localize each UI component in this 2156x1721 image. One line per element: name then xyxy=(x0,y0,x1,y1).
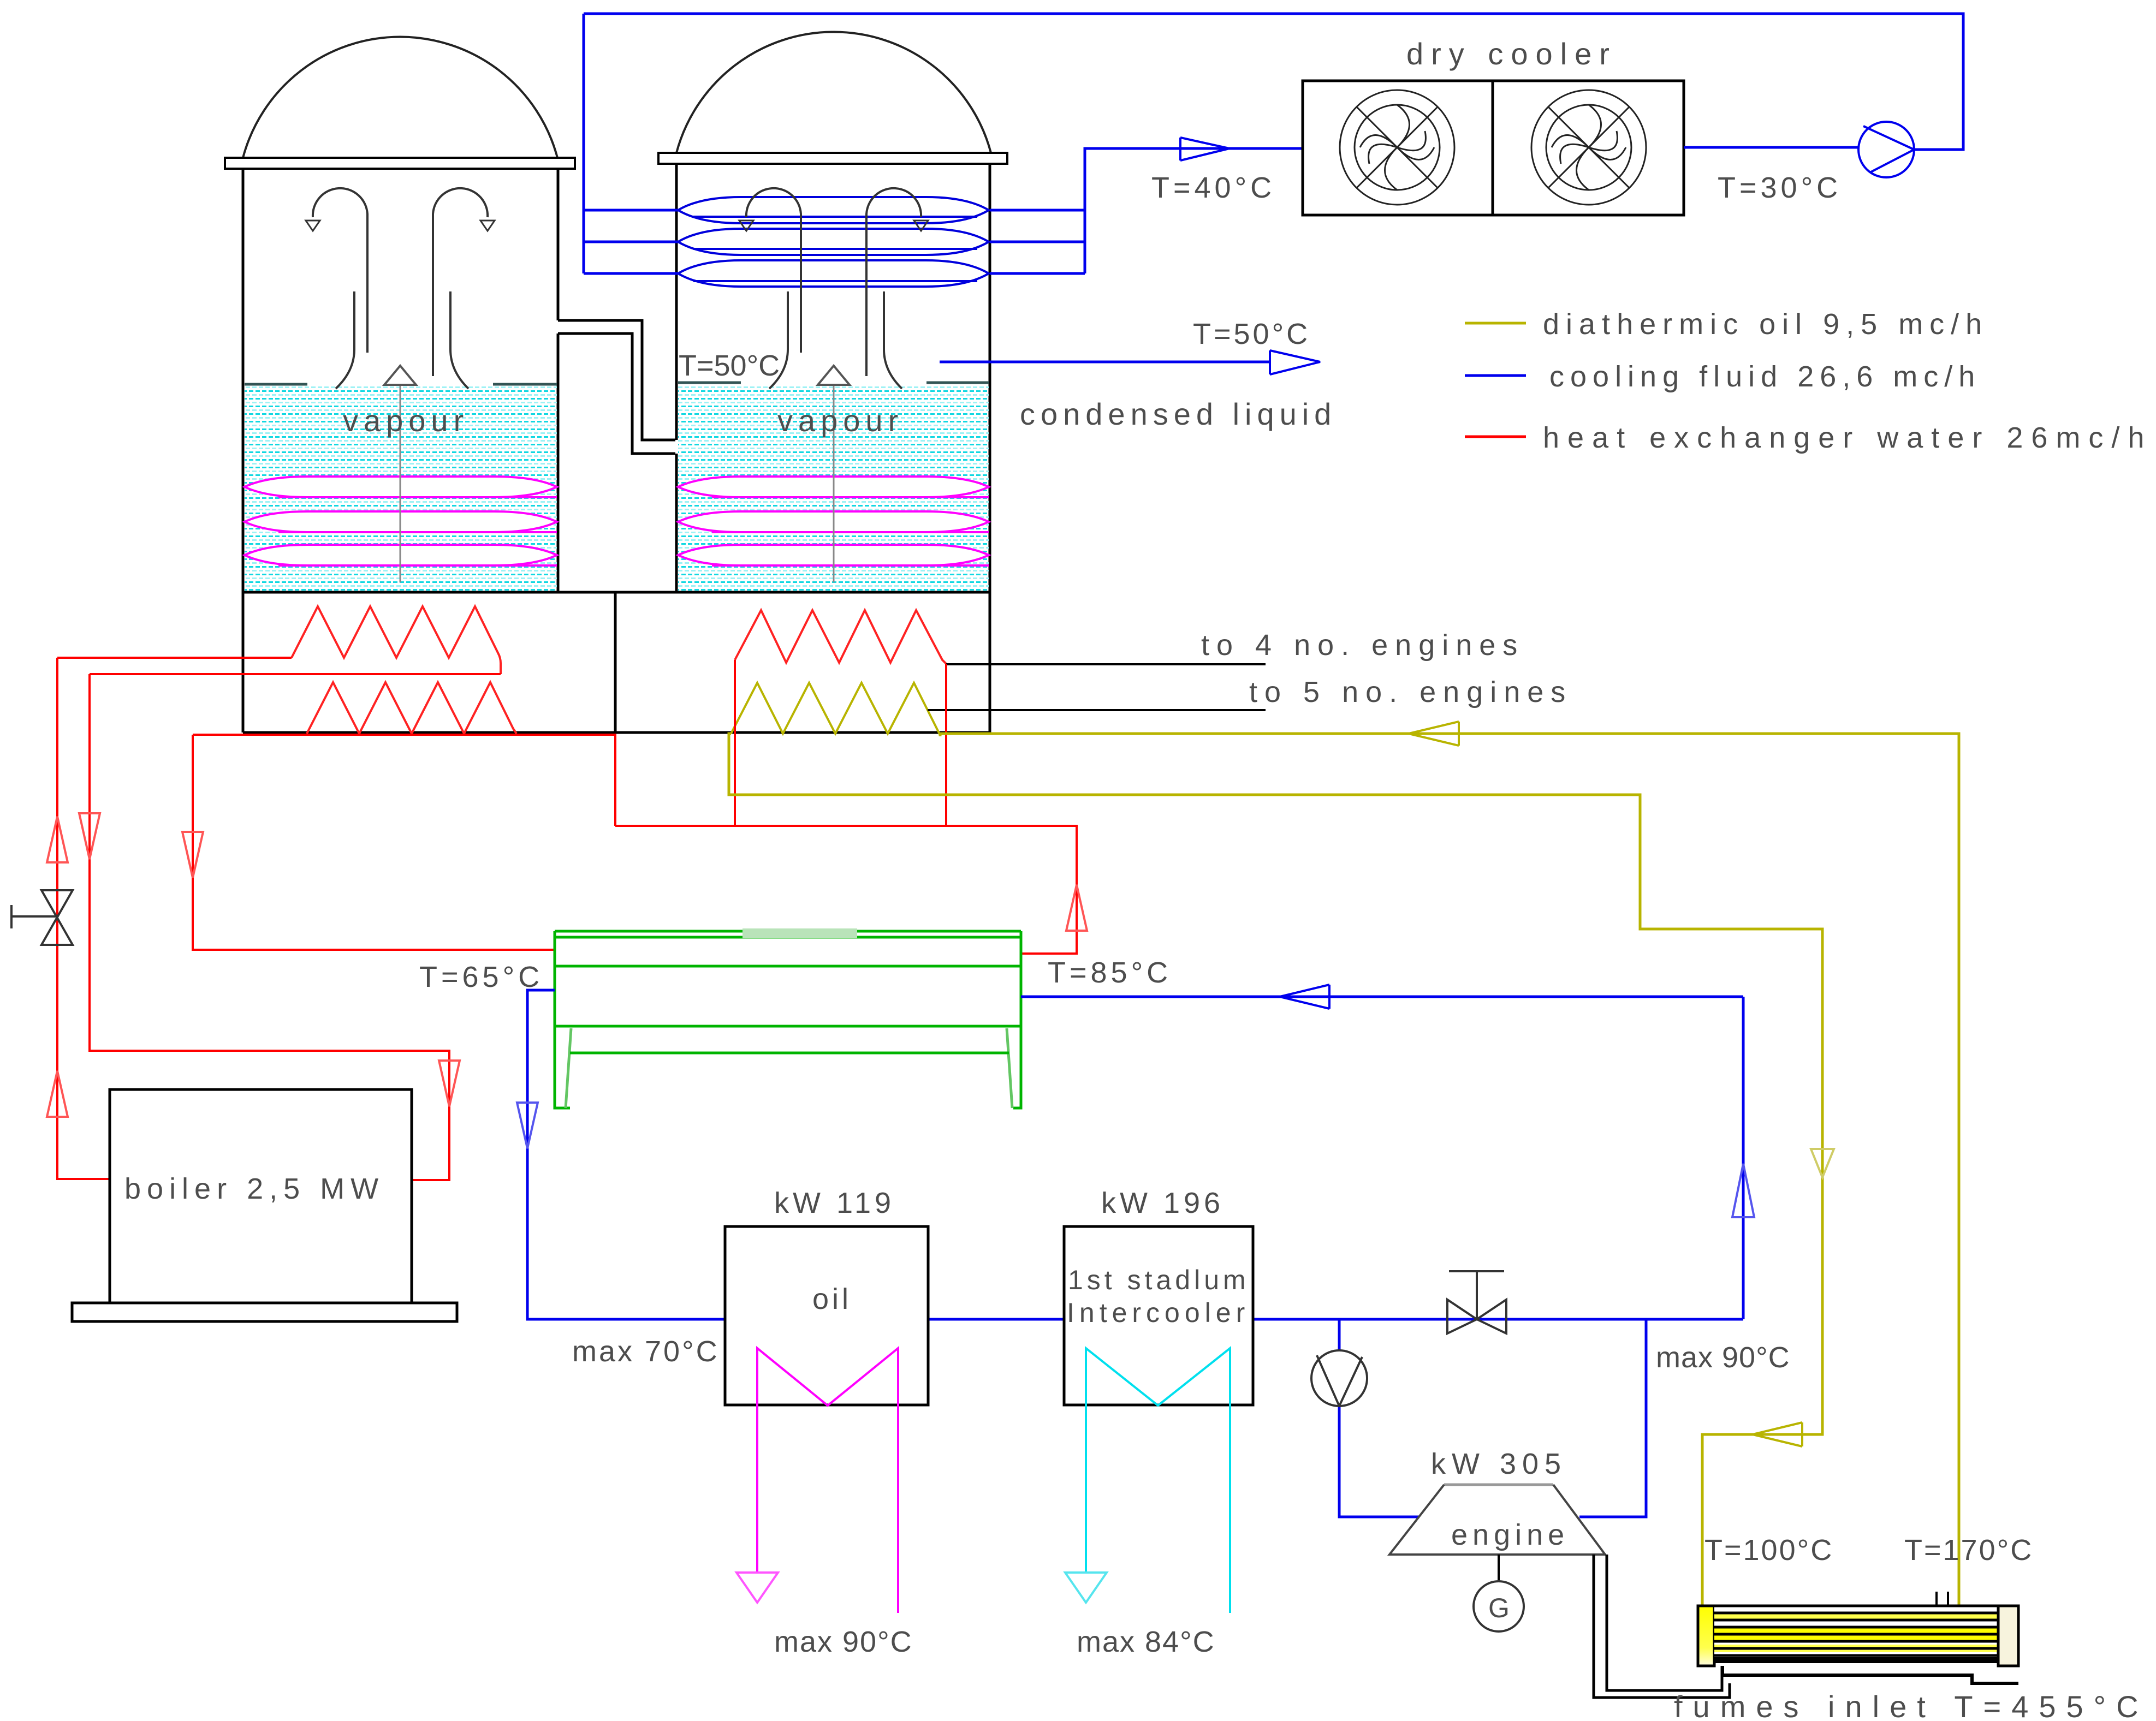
generator G circle xyxy=(1474,1581,1524,1631)
vessel V2 liquid surface line xyxy=(678,382,989,384)
blue pipe dry cooler to pump xyxy=(1684,146,1858,149)
green exchanger body xyxy=(555,931,1021,1026)
vessel V1 right wall (with pipe opening 587-611) xyxy=(557,169,560,592)
green exchanger left edge xyxy=(555,931,570,1108)
svg-text:T=30°C: T=30°C xyxy=(1718,171,1842,204)
wire to 5 no. engines xyxy=(928,709,1266,711)
svg-text:T=40°C: T=40°C xyxy=(1151,171,1275,204)
vessel V2 condenser chord 1 xyxy=(693,216,977,218)
fumes exchanger bottom plate xyxy=(1723,1666,2018,1683)
yellow arrow left on y1344 xyxy=(1409,722,1459,746)
blue arrow up on riser max90 xyxy=(1732,1164,1754,1217)
blue pipe vessel2 coil right manifold xyxy=(990,148,1303,273)
vessel V2 funnel right xyxy=(884,291,902,389)
vessel V1 funnel left xyxy=(336,291,354,389)
cyan circuit V xyxy=(1086,1348,1230,1613)
blue pipe intercooler to engine circuit xyxy=(1253,1318,1743,1321)
svg-text:T=85°C: T=85°C xyxy=(1048,956,1172,989)
svg-text:max 84°C: max 84°C xyxy=(1077,1625,1215,1658)
red arrow down on riser2 drop at boiler xyxy=(439,1061,460,1106)
vessel V2 dome xyxy=(676,32,991,153)
blue arrow condensed liquid xyxy=(1270,350,1320,374)
heater box top line xyxy=(243,591,990,594)
green exchanger left leg xyxy=(566,1028,571,1108)
green exchanger right leg xyxy=(1007,1028,1012,1108)
fumes exchanger tube bundle fill xyxy=(1714,1606,1998,1660)
yellow pipe return from fumes exchanger to vessel2 xyxy=(940,734,1959,1606)
red arrow up T85 xyxy=(1066,885,1087,931)
green exchanger right edge xyxy=(1013,931,1021,1108)
vessel V1 funnel right xyxy=(450,291,468,389)
svg-text:dry cooler: dry cooler xyxy=(1406,37,1617,71)
vessel V2 vapour hook arrow right xyxy=(866,188,921,376)
blue pipe exchanger left port down xyxy=(527,990,725,1319)
vessel V2 condenser coil lens 3 (blue) xyxy=(678,260,989,287)
vessel V1 heating coil lens 2 xyxy=(245,511,557,532)
vessel V2 condenser chord 3 xyxy=(693,280,977,282)
magenta oil circuit V xyxy=(757,1348,898,1613)
green exchanger top highlight xyxy=(743,928,857,938)
legend sample diathermic oil xyxy=(1465,322,1526,325)
vessel V1 dome xyxy=(243,37,557,158)
green exchanger leg crossbar xyxy=(570,1052,1009,1055)
vessel V1 coil chord line 2 xyxy=(278,531,557,533)
vessel V1 flange xyxy=(225,158,575,169)
valve hand valve on riser1 xyxy=(41,890,73,945)
wire vapour crossover outer xyxy=(558,320,675,440)
exhaust duct xyxy=(1594,1555,1730,1698)
vessel V1 heating coil lens 1 xyxy=(245,477,557,497)
svg-text:Intercooler: Intercooler xyxy=(1067,1297,1250,1328)
vessel V1 vapour hook arrow right xyxy=(433,188,488,376)
blue pipe oil box to intercooler xyxy=(928,1318,1064,1321)
red riser 1 (boiler supply up) xyxy=(57,658,110,1179)
fumes exchanger tubes xyxy=(1714,1606,1998,1656)
svg-text:to 4 no. engines: to 4 no. engines xyxy=(1201,629,1524,662)
vessel V1 coil chord line 3 xyxy=(278,564,557,567)
pump P2 xyxy=(1311,1350,1367,1406)
oil box xyxy=(725,1226,928,1405)
vessel V2 coil chord line 2 xyxy=(712,531,989,533)
svg-text:G: G xyxy=(1488,1593,1510,1623)
svg-text:kW 305: kW 305 xyxy=(1431,1448,1567,1480)
blue arrow left on return xyxy=(1280,985,1329,1009)
red arrow up on riser1 upper xyxy=(47,817,68,862)
blue condensed liquid pipe xyxy=(940,361,1270,364)
svg-text:condensed liquid: condensed liquid xyxy=(1020,397,1337,431)
red riser V2-left (from zigzag to T85 junction) xyxy=(734,660,736,826)
red riser 2 (return down to boiler) xyxy=(90,674,449,1180)
svg-text:max 70°C: max 70°C xyxy=(572,1335,720,1368)
svg-text:fumes inlet T=455°C: fumes inlet T=455°C xyxy=(1674,1689,2149,1721)
vessel V2 funnel left xyxy=(769,291,788,389)
svg-text:1st stadlum: 1st stadlum xyxy=(1068,1265,1250,1295)
blue top long pipe xyxy=(584,14,1963,150)
red pipe bottom collector down-left xyxy=(193,735,555,950)
svg-text:max 90°C: max 90°C xyxy=(1656,1341,1790,1374)
yellow arrow left on y2628 xyxy=(1753,1422,1802,1446)
boiler base xyxy=(72,1303,457,1321)
svg-text:boiler 2,5 MW: boiler 2,5 MW xyxy=(124,1172,384,1205)
svg-text:engine: engine xyxy=(1451,1518,1569,1551)
svg-text:heat exchanger water 26mc/h: heat exchanger water 26mc/h xyxy=(1543,421,2152,454)
intercooler box xyxy=(1064,1226,1253,1405)
fumes exchanger bottom tube bar xyxy=(1714,1657,1998,1663)
cyan arrow down xyxy=(1065,1573,1107,1603)
svg-text:vapour: vapour xyxy=(343,403,469,438)
blue return pipe to green exchanger xyxy=(1021,996,1743,998)
blue riser max90 up xyxy=(1742,997,1745,1319)
svg-text:vapour: vapour xyxy=(777,403,904,438)
red bottom collector line V1 xyxy=(193,735,615,826)
svg-text:T=50°C: T=50°C xyxy=(1193,318,1310,350)
dry cooler fan 1 xyxy=(1340,90,1454,205)
vessel V2 centre vapour arrow xyxy=(833,385,835,582)
fumes exchanger top notches xyxy=(1937,1592,1948,1606)
vessel V1 vapour hook arrow left xyxy=(313,188,367,353)
dry cooler fan 2 xyxy=(1531,90,1646,205)
legend sample cooling fluid xyxy=(1465,374,1526,377)
svg-text:oil: oil xyxy=(812,1283,852,1315)
red pipe exchanger left port xyxy=(554,949,556,951)
wire vapour crossover inner xyxy=(558,334,675,454)
legend sample heat exchanger water xyxy=(1465,436,1526,438)
fumes exchanger right header xyxy=(1998,1606,2018,1666)
vessel V2 heating coil lens 1 xyxy=(678,477,989,497)
vessel V2 condenser chord 2 xyxy=(693,248,977,250)
vessel V2 flange xyxy=(658,153,1007,164)
blue pipe engine right port xyxy=(1579,1319,1646,1517)
fumes exchanger left header xyxy=(1698,1606,1714,1666)
dry cooler box xyxy=(1303,81,1684,215)
yellow oil zigzag V2 xyxy=(731,683,940,735)
svg-text:cooling fluid 26,6 mc/h: cooling fluid 26,6 mc/h xyxy=(1549,360,1981,393)
vessel V2 liquid (cyan hatch) xyxy=(678,384,989,592)
heater box right wall V2 xyxy=(989,592,991,733)
valve stub line xyxy=(11,905,57,928)
vessel V1 liquid (cyan hatch) xyxy=(245,385,557,592)
magenta arrow down xyxy=(737,1573,778,1603)
wire to 4 no. engines xyxy=(946,663,1266,665)
svg-text:to 5 no. engines: to 5 no. engines xyxy=(1249,676,1572,708)
svg-text:T=170°C: T=170°C xyxy=(1904,1534,2033,1567)
vessel V2 right wall xyxy=(989,164,991,592)
svg-text:kW 196: kW 196 xyxy=(1101,1187,1224,1219)
red pipe to zigzag V1 upper inlet xyxy=(57,657,292,659)
red header T85 xyxy=(615,826,1077,954)
pump P2 branch down xyxy=(1339,1319,1419,1517)
generator G stem xyxy=(1498,1555,1500,1581)
vessel V1 liquid surface line xyxy=(245,383,557,386)
heater box divider wall xyxy=(614,592,617,733)
blue pipe vessel2 coil left manifold xyxy=(584,14,678,273)
vessel V1 left wall xyxy=(242,169,245,733)
boiler box xyxy=(110,1089,412,1303)
vessel V2 left wall (opening 806-831) xyxy=(675,164,678,592)
svg-text:T=50°C: T=50°C xyxy=(679,349,780,382)
red arrow down on riser2 xyxy=(79,813,100,859)
dry cooler divider xyxy=(1492,81,1494,215)
red heating zigzag V1 lower xyxy=(307,682,516,734)
svg-text:max 90°C: max 90°C xyxy=(774,1625,913,1658)
red riser V2-right xyxy=(945,664,947,826)
vessel V2 heating coil lens 2 xyxy=(678,511,989,532)
vessel V2 vapour hook arrow left xyxy=(746,188,801,353)
vessel V1 centre vapour arrow xyxy=(400,385,401,582)
vessel V2 condenser coil lens 1 (blue) xyxy=(678,197,989,223)
svg-text:T=100°C: T=100°C xyxy=(1704,1534,1833,1567)
blue arrow down on x966 xyxy=(517,1103,538,1148)
blue arrow into dry cooler xyxy=(1180,138,1230,160)
svg-text:kW 119: kW 119 xyxy=(774,1187,895,1219)
svg-text:diathermic oil 9,5 mc/h: diathermic oil 9,5 mc/h xyxy=(1543,308,1988,341)
red arrow down on x353 drop xyxy=(182,832,203,878)
valve V2 stem xyxy=(1449,1271,1504,1319)
vessel V2 condenser coil lens 2 (blue) xyxy=(678,229,989,255)
vessel V1 heating coil lens 3 xyxy=(245,545,557,565)
valve V2 on blue line xyxy=(1447,1300,1506,1333)
engine trapezoid xyxy=(1444,1484,1553,1486)
red pipe from zigzag V1 upper outlet xyxy=(90,673,501,675)
svg-text:T=65°C: T=65°C xyxy=(419,961,543,993)
vessel V2 coil chord line 1 xyxy=(712,496,989,498)
red arrow up on riser1 lower xyxy=(47,1071,68,1117)
red heating zigzag V2 xyxy=(735,610,946,664)
yellow arrow down on x3338 xyxy=(1811,1149,1834,1177)
vessel V2 coil chord line 3 xyxy=(712,564,989,567)
vessel V2 heating coil lens 3 xyxy=(678,545,989,565)
vessel V1 coil chord line 1 xyxy=(278,496,557,498)
heater box bottom line xyxy=(243,731,990,734)
pump P1 xyxy=(1858,122,1914,177)
red heating zigzag V1 upper xyxy=(292,606,501,674)
yellow pipe supply from vessel2 to fumes exchanger xyxy=(729,734,1822,1607)
